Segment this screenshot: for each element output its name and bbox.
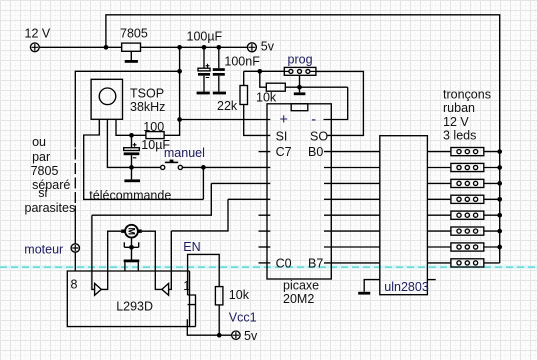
svg-text:par: par <box>32 150 50 164</box>
svg-text:parasites: parasites <box>25 201 76 215</box>
motor M <box>121 225 142 238</box>
junction bus row 6 <box>497 229 502 234</box>
wire C4 riser into L293D <box>169 231 172 290</box>
junction bus row 4 <box>497 197 502 202</box>
junction bus row 7 <box>497 245 502 250</box>
svg-text:10k: 10k <box>256 91 277 105</box>
svg-text:5v: 5v <box>261 39 275 53</box>
svg-text:12 V: 12 V <box>443 115 469 129</box>
junction picaxe supply tap <box>177 117 182 122</box>
wire C2 stub <box>259 230 271 232</box>
wire B5 to ULN input 6 <box>324 230 380 232</box>
svg-text:manuel: manuel <box>164 146 205 160</box>
wire 5v to picaxe + pin <box>180 119 271 121</box>
wire 12V top bus and LED feed bus <box>106 15 500 263</box>
svg-text:C7: C7 <box>276 145 292 159</box>
ground motor and L293D gnd <box>124 260 140 263</box>
svg-text:8: 8 <box>71 277 78 291</box>
wire ULN COM stub <box>427 279 435 281</box>
IR receiver TSOP <box>91 79 122 119</box>
ground 10uF gnd <box>124 179 140 182</box>
pushbutton manuel <box>161 160 183 170</box>
svg-text:20M2: 20M2 <box>283 292 314 306</box>
wire C7 stub <box>259 151 271 153</box>
wire 10k to ground net <box>285 86 347 88</box>
wire C6 riser <box>202 167 204 199</box>
wire optional supply to motor rail <box>75 71 179 147</box>
svg-text:L293D: L293D <box>116 299 153 313</box>
ground C2 gnd <box>213 92 226 95</box>
svg-text:M: M <box>126 227 136 235</box>
svg-text:3 leds: 3 leds <box>443 128 476 142</box>
svg-text:5v: 5v <box>244 329 258 343</box>
resistor 22k <box>240 86 248 105</box>
svg-text:7805: 7805 <box>31 164 59 178</box>
wire B3 to ULN input 4 <box>324 198 380 200</box>
svg-text:tronçons: tronçons <box>443 88 491 102</box>
svg-text:38kHz: 38kHz <box>130 100 165 114</box>
wire B2 to ULN input 3 <box>324 182 380 184</box>
svg-text:1: 1 <box>183 279 190 293</box>
led strip segment 2 <box>427 163 499 171</box>
microcontroller picaxe 20M2 <box>267 104 331 279</box>
junction optional-supply tap <box>177 69 182 74</box>
led strip segment 6 <box>427 227 499 235</box>
driver uln2803 <box>380 136 428 295</box>
wire ground net to picaxe - pin <box>324 87 348 119</box>
wire EN to 10k <box>188 254 220 295</box>
wire C1 stub <box>259 246 271 248</box>
junction gnd tap on TSOP gnd wire <box>129 165 134 170</box>
junction bus tap <box>104 45 109 50</box>
wire 5v vertical distribution <box>179 47 181 119</box>
led strip segment 7 <box>427 243 499 251</box>
junction Vcc1 junction <box>217 333 222 338</box>
wire TSOP out to C6 net <box>84 119 204 199</box>
wire C3 stub <box>259 214 271 216</box>
regulator 7805 <box>122 43 141 51</box>
driver L293D <box>67 271 195 327</box>
junction C6 junction <box>201 165 206 170</box>
junction C2 tap <box>216 45 221 50</box>
svg-text:12 V: 12 V <box>25 26 51 40</box>
svg-text:B0: B0 <box>308 145 323 159</box>
svg-text:picaxe: picaxe <box>283 279 319 293</box>
wire C4 net to L293D <box>171 199 228 231</box>
svg-text:22k: 22k <box>217 99 238 113</box>
wire C0 stub <box>259 262 271 264</box>
wire 7805 gnd stem <box>130 51 132 60</box>
wire B1 to ULN input 2 <box>324 167 380 169</box>
wire motor supply down to L293D pin8 <box>74 206 76 272</box>
svg-text:100µF: 100µF <box>187 29 223 43</box>
junction 10k tap <box>257 69 262 74</box>
ground prog gnd <box>294 92 306 95</box>
wire L293D gnd pins <box>125 262 138 271</box>
led strip segment 5 <box>427 211 499 219</box>
wire motor frame stem <box>131 238 133 247</box>
resistor 100 <box>146 132 164 139</box>
wire motor frame bracket <box>124 242 138 247</box>
picaxe notch <box>291 104 308 111</box>
svg-text:télécommande: télécommande <box>89 188 171 202</box>
page boundary dashed cyan line <box>0 265 537 268</box>
svg-text:ou: ou <box>32 135 46 149</box>
wire C5 riser into L293D <box>92 215 95 289</box>
svg-text:si: si <box>38 186 47 200</box>
ground C1 gnd <box>197 92 210 95</box>
wire B4 to ULN input 5 <box>324 214 380 216</box>
wire B6 to ULN input 7 <box>324 246 380 248</box>
svg-text:SI: SI <box>276 129 288 143</box>
wire B7 to ULN input 8 <box>324 262 380 264</box>
svg-text:10k: 10k <box>229 288 250 302</box>
led strip segment 3 <box>427 179 499 187</box>
terminal 5v out <box>247 43 256 52</box>
junction bus row 2 <box>497 165 502 170</box>
wire 10k to 5v <box>218 305 220 335</box>
wire 100R to 5v <box>164 120 180 136</box>
wire serial TX net <box>244 70 285 72</box>
wire C5 pin <box>211 182 270 184</box>
svg-text:Vcc1: Vcc1 <box>229 311 257 325</box>
wire optional dashed link (7805 separate) <box>74 149 76 204</box>
led strip segment 4 <box>427 195 499 203</box>
junction bus row 1 <box>497 149 502 154</box>
svg-text:+: + <box>280 112 288 128</box>
buffer A <box>95 283 102 295</box>
wire prog pin3 to SO <box>316 71 364 135</box>
wire TSOP Vs pin to 100R <box>116 119 146 135</box>
wire C5 net to L293D <box>92 183 211 215</box>
resistor 10k (serial) <box>266 83 285 91</box>
connector J1 prog <box>284 67 316 75</box>
svg-text:SO: SO <box>310 129 328 143</box>
junction bus row 3 <box>497 181 502 186</box>
wire motor gnd stem <box>131 247 133 259</box>
wire motor A to L293D out1 <box>101 231 121 289</box>
svg-text:B7: B7 <box>308 256 323 270</box>
svg-text:prog: prog <box>288 53 313 67</box>
svg-text:moteur: moteur <box>24 243 63 257</box>
led strip segment 1 <box>427 148 499 156</box>
wire B0 to ULN input 1 <box>324 151 380 153</box>
ground ULN gnd <box>358 292 370 295</box>
wire Vcc1 to 5v terminal <box>187 319 232 335</box>
svg-text:ruban: ruban <box>443 101 475 115</box>
buffer B <box>162 283 169 295</box>
junction C1 tap <box>202 45 207 50</box>
connector notch pin1 <box>188 295 196 327</box>
svg-text:C0: C0 <box>276 256 292 270</box>
wire C4 pin <box>228 198 270 200</box>
capacitor C1 100uF (polarized) <box>198 47 210 91</box>
wire 22k to SI pin <box>244 105 271 136</box>
capacitor 10uF (polarized) <box>124 135 140 179</box>
junction prog gnd tap <box>297 85 302 90</box>
terminal Vcc1 5v <box>232 331 240 339</box>
wire TSOP gnd pin to switch <box>107 119 160 167</box>
junction motor gnd junction <box>129 245 134 250</box>
wire motor B to L293D out2 <box>142 231 162 289</box>
svg-text:100nF: 100nF <box>224 54 260 68</box>
junction 5v vertical tap <box>177 45 182 50</box>
wire switch to C6 pin <box>182 166 270 168</box>
wire TX to 10k <box>260 71 267 87</box>
junction bus row 5 <box>497 213 502 218</box>
terminal 12V input <box>30 43 39 52</box>
wire TX to 22k <box>243 71 245 85</box>
led strip segment 8 <box>427 259 499 267</box>
wire 12V rail to 7805 input <box>39 46 122 48</box>
svg-text:uln2803: uln2803 <box>384 280 429 294</box>
terminal moteur supply <box>71 244 79 252</box>
svg-text:EN: EN <box>183 240 200 254</box>
wire 5v rail <box>141 46 248 48</box>
wire prog pin2 to gnd <box>299 75 301 92</box>
resistor 10k (EN pullup) <box>215 287 223 305</box>
capacitor C2 100nF <box>213 47 225 91</box>
wire ULN gnd <box>364 280 380 292</box>
junction 10uF top tap <box>129 133 134 138</box>
ground 7805 gnd <box>125 60 138 63</box>
svg-text:-: - <box>311 112 316 128</box>
svg-text:TSOP: TSOP <box>130 87 164 101</box>
svg-text:7805: 7805 <box>120 27 148 41</box>
